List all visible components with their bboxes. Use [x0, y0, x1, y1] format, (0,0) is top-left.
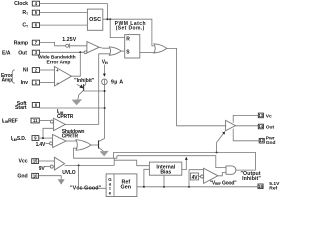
node osc R	[109, 18, 111, 20]
pin 3 E/A Out	[2, 50, 40, 56]
svg-text:R: R	[126, 37, 130, 43]
svg-text:−: −	[56, 81, 59, 86]
4V box	[190, 173, 198, 181]
pin 5 RT	[22, 10, 39, 16]
Q2 emitter ground arrow	[100, 151, 109, 157]
Q1 emitter ground arrow	[72, 99, 83, 105]
PWM latch box U2	[125, 35, 140, 58]
wire ref rail riser to C5	[189, 170, 204, 187]
OSC block	[87, 9, 102, 30]
wire C5 out to AND gate	[218, 173, 226, 176]
svg-text:RT: RT	[22, 10, 28, 16]
wire RT to OSC	[40, 12, 88, 14]
svg-text:CT: CT	[22, 23, 28, 29]
svg-text:VIN: VIN	[102, 59, 109, 65]
wire OR3 to Q2 base	[91, 144, 98, 146]
wire C3 out to OR3	[66, 140, 77, 142]
wire Inv to error amp	[40, 82, 55, 84]
wire Vc	[233, 115, 258, 122]
wire OR1 bottom input from vertical A	[99, 54, 111, 125]
svg-text:UVLO: UVLO	[62, 170, 75, 176]
current source I1 9uA	[102, 79, 108, 85]
svg-text:11: 11	[33, 118, 38, 123]
wire AND output	[236, 169, 256, 171]
wire OR2 output to output stage	[167, 48, 226, 125]
wire NI to error amp	[40, 69, 55, 71]
wire to latch R input	[110, 19, 125, 37]
pin 12 Pwr Gnd	[259, 136, 275, 146]
wire vcc good down to gate box	[79, 165, 107, 188]
VIN feed arrow	[103, 65, 106, 77]
wire clock pin4 to OR2 drop	[40, 3, 108, 5]
svg-text:Ramp: Ramp	[14, 40, 28, 46]
pin 14 Out	[258, 124, 274, 131]
wire ref rail riser to internal bias	[144, 169, 150, 187]
node E/A out	[79, 51, 81, 53]
svg-text:CPRTR: CPRTR	[57, 114, 74, 120]
wire step down to UVLO line	[113, 158, 115, 165]
PWM comparator C1	[84, 42, 99, 54]
pin 6 CT	[22, 23, 39, 29]
rail B vcc good	[117, 156, 226, 168]
svg-text:Vc: Vc	[266, 113, 272, 119]
svg-text:9µ A: 9µ A	[111, 79, 124, 85]
svg-text:4V: 4V	[192, 175, 199, 181]
wire latch Q to OR2	[140, 51, 155, 53]
node rail A diagonal	[216, 151, 218, 153]
svg-text:Amp: Amp	[2, 78, 13, 84]
svg-text:Out: Out	[266, 125, 275, 131]
node soft start	[104, 107, 106, 109]
wire Q1 collector to node	[84, 90, 105, 92]
ground symbol	[58, 179, 65, 184]
wire ILIM REF to C2	[39, 120, 50, 122]
svg-text:NI: NI	[23, 68, 29, 74]
svg-text:Gen: Gen	[121, 185, 131, 191]
pin 4 Clock	[14, 1, 39, 7]
error amp U1	[55, 67, 72, 87]
svg-text:Gnd: Gnd	[17, 174, 27, 180]
svg-text:Out: Out	[18, 51, 27, 57]
OR gate OR3 restart	[76, 140, 91, 151]
svg-text:+: +	[56, 68, 59, 73]
svg-text:1.4V: 1.4V	[36, 142, 46, 148]
wire diagonal inhibit to output stage	[217, 131, 225, 152]
wire Out	[235, 125, 258, 127]
label Shutdown CPRTR	[62, 129, 85, 139]
transistor Q2	[99, 138, 105, 151]
node osc/clock	[106, 18, 108, 20]
label wide bandwidth error amp	[38, 55, 76, 66]
wire clock drop to OSC output node	[106, 4, 108, 20]
comparator C3 shutdown	[50, 135, 67, 148]
comparator C5 vref good	[201, 168, 218, 183]
restart wire horizontal	[73, 156, 117, 159]
wire error amp out up to E/A line	[72, 52, 81, 76]
pin 15 Vcc	[19, 159, 39, 165]
node vcc good	[78, 164, 80, 166]
wire Vcc to UVLO	[39, 160, 55, 162]
wire OSC output	[103, 19, 154, 46]
wire current source down	[103, 85, 105, 139]
label ILIM CPRTR	[57, 109, 74, 120]
OR gate OR1 (to S input)	[109, 47, 121, 56]
inhibit arrow to Q1 base	[77, 84, 84, 88]
pin 13 Vc	[258, 113, 272, 120]
svg-text:"VREF Good": "VREF Good"	[210, 180, 238, 186]
rail A output inhibit	[114, 152, 256, 170]
output stage triangle U3	[226, 120, 236, 130]
svg-text:Bias: Bias	[160, 170, 171, 176]
svg-text:Gnd: Gnd	[266, 140, 276, 146]
internal bias up arrow	[182, 157, 188, 170]
pin 7 Ramp	[14, 40, 40, 46]
wire soft start	[40, 107, 105, 109]
svg-text:10: 10	[33, 173, 38, 178]
AND gate A1	[226, 166, 236, 174]
PWM latch label	[115, 21, 146, 32]
comparator C2 ILIM	[50, 118, 65, 130]
svg-text:ILIMS.D.: ILIMS.D.	[11, 136, 27, 142]
node ref rail 1	[143, 186, 145, 188]
node collector	[104, 90, 106, 92]
svg-text:12: 12	[259, 138, 264, 143]
wire Pwr Gnd	[233, 129, 259, 141]
svg-text:"Vcc Good": "Vcc Good"	[70, 185, 102, 191]
wire pin9 to shutdown comparator	[39, 137, 52, 139]
comparator C4 UVLO	[50, 157, 64, 170]
wire ref gen to 5.1V rail	[137, 186, 258, 188]
pin 1 Inv	[21, 80, 40, 86]
wire C2 output to vertical A	[65, 124, 98, 126]
wire E/A out line	[40, 51, 85, 53]
pin 9 ILIM S.D.	[11, 136, 39, 143]
svg-text:CPRTR: CPRTR	[62, 133, 79, 139]
svg-text:9V: 9V	[39, 166, 46, 172]
wire C1 out to OR1	[99, 47, 109, 48]
wire ILIM SD riser to C2 plus input	[43, 128, 54, 138]
Gate / Ref Gen box	[106, 174, 137, 197]
svg-text:13: 13	[259, 113, 264, 118]
node pin9	[42, 137, 44, 139]
wire CT to OSC	[40, 24, 88, 26]
svg-text:14: 14	[259, 124, 264, 129]
svg-text:Inhibit": Inhibit"	[242, 176, 261, 182]
Internal Bias box	[149, 162, 181, 175]
svg-text:ILIMREF: ILIMREF	[2, 118, 18, 124]
node ref rail 3	[188, 186, 190, 188]
pin 8 Soft Start	[15, 101, 39, 111]
wire UVLO output	[65, 164, 115, 166]
battery 1.25V offset	[66, 43, 87, 48]
error amp label and brace	[1, 70, 15, 84]
svg-text:1.25V: 1.25V	[62, 37, 76, 43]
node ref rail 2	[163, 186, 165, 188]
OR gate OR2 (output)	[154, 44, 167, 53]
svg-text:15: 15	[33, 159, 38, 164]
wire ramp to PWM comparator	[40, 42, 66, 45]
label output inhibit	[241, 171, 262, 182]
wire 4V to bubble	[199, 176, 201, 178]
wire 1.4V to bubble	[46, 142, 50, 144]
svg-text:(Set Dom.): (Set Dom.)	[116, 26, 145, 32]
svg-text:Ref: Ref	[269, 185, 277, 191]
pin 10 Gnd	[17, 173, 38, 179]
svg-text:Vcc: Vcc	[19, 159, 28, 165]
pin 2 NI	[23, 68, 40, 74]
pin 11 ILIM REF	[2, 118, 39, 124]
svg-text:"Inhibit": "Inhibit"	[74, 78, 95, 84]
pin 16 5.1V Ref	[258, 181, 280, 192]
svg-text:16: 16	[258, 184, 263, 189]
wire UVLO line to internal bias	[114, 160, 149, 166]
svg-text:Clock: Clock	[14, 1, 28, 7]
svg-text:OSC: OSC	[89, 17, 101, 23]
wire Gnd to ground	[39, 176, 62, 180]
svg-text:Inv: Inv	[21, 80, 29, 86]
wire OR1 to S	[121, 50, 125, 52]
svg-text:Error Amp: Error Amp	[47, 59, 71, 65]
svg-text:Start: Start	[15, 105, 27, 111]
transistor Q1	[78, 82, 86, 100]
svg-text:E/A: E/A	[2, 51, 11, 57]
wire OR3 bottom input riser	[73, 148, 77, 158]
wire 9V to bubble	[45, 166, 51, 168]
wire internal bias bottom to ref rail	[163, 175, 165, 187]
